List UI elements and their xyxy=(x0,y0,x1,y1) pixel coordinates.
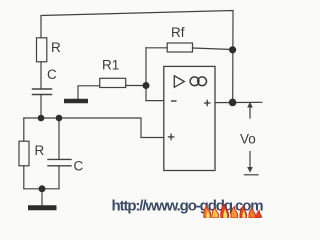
svg-text:R: R xyxy=(51,40,61,55)
svg-text:C: C xyxy=(74,159,84,174)
svg-text:C: C xyxy=(47,67,57,82)
svg-text:R1: R1 xyxy=(102,58,119,73)
svg-text:Rf: Rf xyxy=(171,25,185,40)
svg-text:R: R xyxy=(35,143,45,158)
svg-text:Vo: Vo xyxy=(240,132,256,147)
